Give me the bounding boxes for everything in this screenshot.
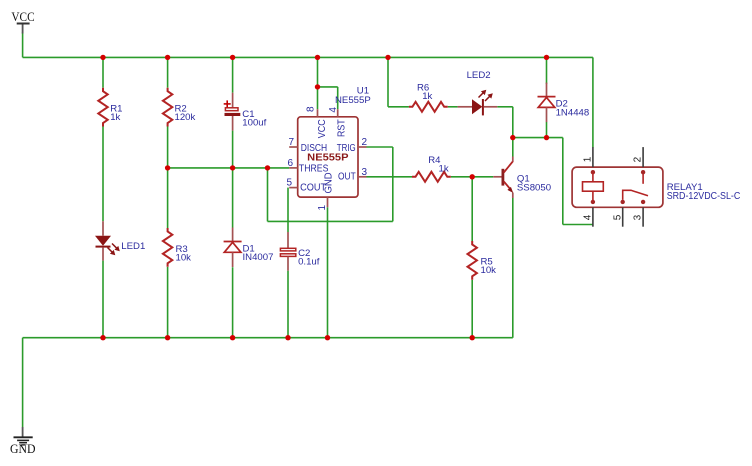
svg-text:IN4007: IN4007 [243, 252, 274, 263]
svg-text:SRD-12VDC-SL-C: SRD-12VDC-SL-C [667, 191, 741, 202]
svg-text:GND: GND [10, 441, 36, 456]
svg-text:10k: 10k [481, 265, 497, 276]
svg-text:0.1uf: 0.1uf [298, 257, 320, 268]
svg-text:3: 3 [633, 214, 644, 220]
svg-text:LED1: LED1 [121, 241, 145, 252]
svg-text:8: 8 [306, 106, 317, 112]
svg-text:NE555P: NE555P [335, 95, 371, 106]
svg-text:4: 4 [583, 214, 594, 220]
svg-text:1: 1 [583, 156, 594, 162]
svg-text:2: 2 [633, 156, 644, 162]
svg-text:10k: 10k [176, 253, 192, 264]
svg-text:OUT: OUT [338, 172, 356, 183]
svg-text:6: 6 [287, 158, 293, 169]
svg-text:1k: 1k [439, 163, 449, 174]
svg-text:2: 2 [362, 137, 368, 148]
svg-text:1N4448: 1N4448 [556, 108, 590, 119]
svg-text:COUT: COUT [300, 183, 326, 194]
svg-text:1: 1 [317, 205, 328, 211]
svg-text:SS8050: SS8050 [517, 183, 551, 194]
svg-text:4: 4 [328, 107, 339, 113]
svg-text:100uf: 100uf [242, 118, 266, 129]
svg-text:5: 5 [612, 214, 623, 220]
svg-text:3: 3 [362, 167, 368, 178]
svg-text:1k: 1k [422, 91, 432, 102]
svg-text:GND: GND [323, 172, 334, 193]
svg-text:1k: 1k [110, 112, 120, 123]
svg-text:LED2: LED2 [467, 70, 491, 81]
svg-text:VCC: VCC [317, 119, 328, 138]
svg-text:RST: RST [336, 119, 347, 137]
svg-text:120k: 120k [175, 112, 196, 123]
svg-text:NE555P: NE555P [307, 153, 348, 164]
svg-text:5: 5 [286, 178, 292, 189]
svg-text:VCC: VCC [11, 9, 34, 24]
svg-text:7: 7 [288, 137, 294, 148]
